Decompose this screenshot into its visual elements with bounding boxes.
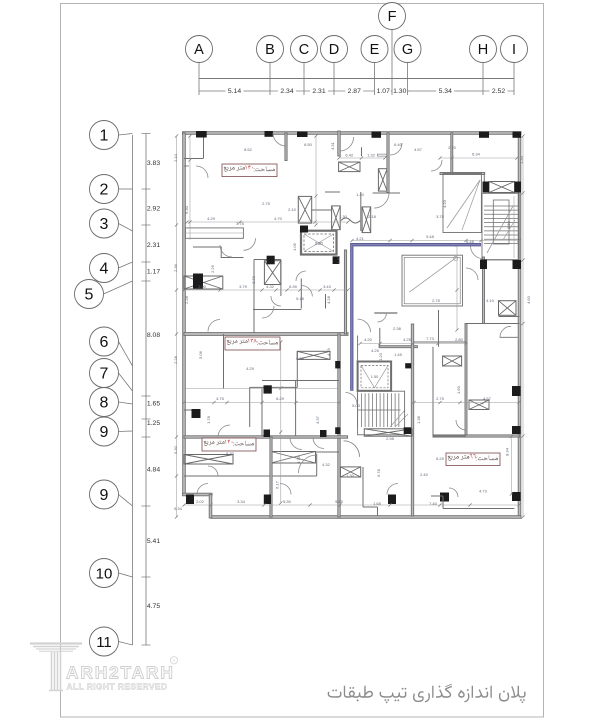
door arc 10 xyxy=(208,466,218,476)
grid leader A xyxy=(198,63,200,96)
stair dim v xyxy=(513,196,515,258)
wall room B-C v xyxy=(285,133,287,161)
door arc wc 66 xyxy=(500,326,511,337)
column bottom A xyxy=(186,495,194,505)
wall y380 h xyxy=(262,380,339,382)
outer wall top xyxy=(183,132,522,135)
svg-text:6.34: 6.34 xyxy=(472,152,481,157)
svg-text:2.75: 2.75 xyxy=(432,298,441,303)
elevator U2 cab xyxy=(361,365,388,387)
svg-text:F: F xyxy=(388,9,397,25)
svg-text:5.06: 5.06 xyxy=(198,350,203,359)
svg-text:7.73: 7.73 xyxy=(426,336,435,341)
closet hatch below stair xyxy=(341,467,361,477)
svg-text:2.28: 2.28 xyxy=(173,355,178,364)
svg-text:1.78: 1.78 xyxy=(206,415,211,424)
wall x281 v xyxy=(280,260,282,297)
svg-text:ARH2TARH: ARH2TARH xyxy=(66,663,174,683)
right outside dim rail xyxy=(522,136,524,517)
door arc lobby xyxy=(301,286,312,297)
svg-text:4.32: 4.32 xyxy=(322,462,331,467)
column interior C4 xyxy=(267,256,275,265)
column stair beam L xyxy=(483,182,490,193)
svg-text:ALL RIGHT RESERVED: ALL RIGHT RESERVED xyxy=(67,682,168,692)
svg-text:1.32: 1.32 xyxy=(367,153,376,158)
door arc 19 xyxy=(449,488,458,497)
svg-text:6.40: 6.40 xyxy=(394,142,403,147)
svg-text:2.87: 2.87 xyxy=(348,88,361,95)
door arc x281 xyxy=(271,296,281,306)
svg-text:2.90: 2.90 xyxy=(198,284,207,289)
grid leader 5 xyxy=(104,281,133,294)
grid leader 9 xyxy=(119,430,133,433)
grid leader 6 xyxy=(119,342,133,367)
svg-text:6.50: 6.50 xyxy=(304,142,313,147)
svg-text:4.37: 4.37 xyxy=(315,415,320,424)
svg-text:2.70: 2.70 xyxy=(448,145,457,150)
shaft hatch EF v xyxy=(378,169,387,191)
svg-text:3.43: 3.43 xyxy=(323,284,332,289)
svg-text:1.45: 1.45 xyxy=(394,352,403,357)
svg-text:6.30: 6.30 xyxy=(184,205,189,214)
dim line y343 xyxy=(360,343,466,345)
beam hatch EF xyxy=(339,162,360,172)
logo registered mark xyxy=(170,657,177,664)
grid bubble 3 (row) xyxy=(90,209,119,238)
svg-text:3.34: 3.34 xyxy=(237,499,246,504)
room 4.20 diagonal xyxy=(447,180,480,228)
svg-text:H: H xyxy=(478,42,488,58)
wall x363 v xyxy=(362,467,364,507)
column top I xyxy=(513,132,522,138)
dim line x280 v xyxy=(280,342,282,503)
door arc double leaf a xyxy=(344,441,360,457)
svg-text:5.18: 5.18 xyxy=(296,296,305,301)
svg-text:2.50: 2.50 xyxy=(506,220,511,229)
svg-text:6: 6 xyxy=(100,334,109,351)
beam hatch stair2 xyxy=(364,429,412,436)
svg-text:2.52: 2.52 xyxy=(492,88,505,95)
wall x433 v xyxy=(432,347,434,436)
stair mid rail xyxy=(358,409,401,411)
grid bubble 7 (row) xyxy=(90,359,119,388)
column left wall mid xyxy=(193,274,203,289)
svg-text:7.40: 7.40 xyxy=(429,501,438,506)
door arc 9 xyxy=(299,455,317,473)
plan dimension labels xyxy=(173,141,531,511)
svg-text:2.31: 2.31 xyxy=(312,88,325,95)
wall x484 stub xyxy=(483,174,485,184)
grid leader D xyxy=(333,63,335,96)
wall corridor west xyxy=(338,334,340,517)
svg-text:D: D xyxy=(329,42,339,58)
svg-text:1.07: 1.07 xyxy=(377,88,390,95)
svg-text:1.50: 1.50 xyxy=(371,375,378,379)
grid bubble 5 (row) xyxy=(75,280,104,309)
svg-text:1.30: 1.30 xyxy=(346,473,355,478)
svg-text:5.85: 5.85 xyxy=(335,499,344,504)
window bay left xyxy=(185,228,243,238)
svg-text:4.75: 4.75 xyxy=(216,396,225,401)
elevator U2 V xyxy=(361,365,375,387)
svg-text:3: 3 xyxy=(100,216,109,233)
grid bubble 6 (row) xyxy=(90,327,119,356)
grid leader H xyxy=(482,63,484,96)
elevator U1 cab xyxy=(304,234,334,252)
column corridor right xyxy=(480,260,487,270)
wall corridor east xyxy=(411,324,413,516)
svg-text:1.05: 1.05 xyxy=(292,242,297,251)
wall wc 66 h xyxy=(499,316,520,318)
wall y173 h xyxy=(440,173,485,175)
svg-text:4.20: 4.20 xyxy=(442,199,447,208)
wall x360 v xyxy=(360,192,362,231)
grid bubble 8 (row) xyxy=(90,388,119,417)
column stair2 NW xyxy=(335,361,340,368)
top dimension rail xyxy=(199,78,514,80)
column interior corridor xyxy=(264,385,272,393)
room 4.20 diagonal 2 xyxy=(462,180,480,230)
outer wall step bottom-left h xyxy=(183,493,213,496)
dim line x457 v xyxy=(456,245,458,330)
column interior 8 xyxy=(264,430,271,438)
stairwell box xyxy=(482,193,519,259)
svg-text:6.17: 6.17 xyxy=(275,480,280,489)
grid bubble F xyxy=(379,3,406,30)
area label 138 (mid) xyxy=(225,337,280,350)
svg-text:3.73: 3.73 xyxy=(296,455,301,464)
column right wall mid xyxy=(513,260,522,269)
door arc 13 xyxy=(431,160,442,171)
svg-text:4.20: 4.20 xyxy=(364,337,373,342)
svg-text:5.03: 5.03 xyxy=(352,403,361,408)
svg-text:2.98: 2.98 xyxy=(386,436,395,441)
grid leader I xyxy=(513,63,515,96)
svg-text:5.39: 5.39 xyxy=(296,356,305,361)
door arc y313 xyxy=(377,313,386,322)
svg-text:5.41: 5.41 xyxy=(147,538,160,545)
svg-text:2.10: 2.10 xyxy=(173,153,178,162)
svg-text:4.28: 4.28 xyxy=(326,295,331,304)
grid leader 8 xyxy=(119,402,133,404)
column interior 8b xyxy=(320,430,327,437)
area label 66 (right) xyxy=(446,453,500,466)
svg-text:1.25: 1.25 xyxy=(147,420,160,427)
shaft hatch 1 xyxy=(298,196,311,223)
wall y436 right xyxy=(433,435,520,437)
door arc 2 xyxy=(220,245,232,257)
wall x438 upper v xyxy=(438,310,440,347)
svg-text:5.30: 5.30 xyxy=(173,445,178,454)
wall Z-partition xyxy=(193,247,244,258)
grid leader 7 xyxy=(119,373,133,391)
door arc 17 xyxy=(280,484,291,495)
wall elevator lobby v xyxy=(300,279,302,309)
elevator U1 cross xyxy=(304,234,334,252)
wall y387 h xyxy=(250,386,298,388)
dim line y402 xyxy=(184,402,339,404)
svg-text:4.19: 4.19 xyxy=(326,347,331,356)
grid bubble H xyxy=(470,36,497,63)
svg-text:4.60: 4.60 xyxy=(526,295,531,304)
grid bubble I xyxy=(501,36,528,63)
left dim tick xyxy=(142,395,151,397)
column top C xyxy=(297,132,308,138)
grid leader 11 xyxy=(119,642,133,646)
door arc double leaf b xyxy=(352,443,360,457)
svg-text:4.10: 4.10 xyxy=(486,298,495,303)
void room 2 box xyxy=(402,255,463,306)
svg-text:4.29: 4.29 xyxy=(207,216,216,221)
svg-text:2.34: 2.34 xyxy=(280,88,293,95)
wall closet top-left h xyxy=(184,158,204,160)
grid bubble 2 (row) xyxy=(90,175,119,204)
svg-text:4.75: 4.75 xyxy=(147,603,160,610)
svg-text:5: 5 xyxy=(85,287,94,304)
wall corridor x483 xyxy=(483,257,485,324)
left grid rail xyxy=(132,135,134,645)
shaft hatch 3 xyxy=(362,207,371,233)
grid leader 1 xyxy=(119,134,133,136)
wall x262b v xyxy=(261,389,263,438)
door arc 6 xyxy=(218,425,230,437)
svg-text:6.42: 6.42 xyxy=(345,153,354,158)
dim line 6.75 xyxy=(184,388,339,390)
left dim tick xyxy=(142,505,151,507)
stair2 box xyxy=(358,391,405,435)
svg-text:3.79: 3.79 xyxy=(239,284,248,289)
grid leader G xyxy=(407,63,409,96)
wall D double v xyxy=(338,131,340,156)
column bottom F xyxy=(388,495,396,505)
wall y452 h xyxy=(316,451,340,453)
grid leader 10 xyxy=(119,573,133,577)
shaft hatch 2 xyxy=(332,206,341,230)
wall x380 v xyxy=(379,328,381,348)
wall y346 h xyxy=(379,346,417,348)
outer wall bottom xyxy=(211,516,521,519)
door arc D xyxy=(340,137,354,151)
svg-text:10: 10 xyxy=(96,566,113,583)
stair treads bottom xyxy=(358,393,399,427)
grid leader 2 xyxy=(119,188,133,190)
svg-text:8.08: 8.08 xyxy=(147,332,160,339)
left dim tick xyxy=(142,280,151,282)
svg-text:2: 2 xyxy=(100,182,109,199)
left dim tick xyxy=(142,644,151,646)
wall y193 h xyxy=(373,192,400,194)
svg-text:1.30: 1.30 xyxy=(339,214,348,219)
svg-text:5.34: 5.34 xyxy=(439,88,452,95)
outer wall left xyxy=(183,133,186,495)
dim line y222 xyxy=(187,221,348,223)
svg-text:4.21: 4.21 xyxy=(356,236,365,241)
svg-text:1.17: 1.17 xyxy=(147,269,160,276)
svg-text:1.30: 1.30 xyxy=(393,88,406,95)
area label 140 (top) xyxy=(222,164,277,177)
window bar EF xyxy=(378,154,390,156)
area label 140 (bottom) xyxy=(202,438,256,451)
grid bubble 1 (row) xyxy=(90,121,119,150)
svg-text:1.38: 1.38 xyxy=(416,415,421,424)
grid bubble A xyxy=(186,36,213,63)
svg-text:1.30: 1.30 xyxy=(519,155,524,164)
grid leader 3 xyxy=(119,224,133,232)
door arc 3 xyxy=(262,306,274,318)
svg-text:2.10: 2.10 xyxy=(288,207,297,212)
closet hatch bl 1 xyxy=(184,455,233,465)
svg-text:2.28: 2.28 xyxy=(184,295,189,304)
wall U2 link xyxy=(357,336,359,362)
column interior center xyxy=(300,226,308,233)
grid leader E xyxy=(374,63,376,96)
stair arrow right xyxy=(487,206,513,253)
left dim tick xyxy=(142,261,151,263)
hatch beam y355 xyxy=(297,351,330,359)
dim line x190 v xyxy=(189,136,191,240)
svg-text:5.14: 5.14 xyxy=(228,88,241,95)
svg-text:9.48: 9.48 xyxy=(426,234,435,239)
door arc 1 xyxy=(196,166,208,178)
outer wall right xyxy=(518,133,521,518)
door arc 4 xyxy=(296,271,306,281)
wall y259 stub xyxy=(254,259,281,261)
door arc 8 xyxy=(313,438,324,449)
svg-text:9: 9 xyxy=(100,487,109,504)
svg-text:4.73: 4.73 xyxy=(479,489,488,494)
svg-text:2.38: 2.38 xyxy=(393,326,402,331)
svg-text:4.29: 4.29 xyxy=(246,366,255,371)
svg-text:8.34: 8.34 xyxy=(505,447,510,456)
wall x250 v xyxy=(249,387,251,427)
closet hatch 66 apt 2 xyxy=(469,400,489,410)
wall y437 h xyxy=(184,436,348,438)
left dim tick xyxy=(142,418,151,420)
svg-text:2.80: 2.80 xyxy=(455,337,464,342)
wall y324 right xyxy=(466,323,520,325)
major wall y334 xyxy=(184,333,348,336)
svg-text:6.39: 6.39 xyxy=(289,284,298,289)
column right wall 7 xyxy=(512,386,521,396)
stair exit arc xyxy=(471,246,484,259)
door arc 7 xyxy=(290,438,302,450)
svg-text:4: 4 xyxy=(100,261,109,278)
svg-text:3.75: 3.75 xyxy=(236,221,245,226)
svg-text:1.40: 1.40 xyxy=(356,192,365,197)
svg-text:4.25: 4.25 xyxy=(371,348,380,353)
left dim tick xyxy=(142,224,151,226)
column bottom G xyxy=(440,493,449,502)
svg-text:5.30: 5.30 xyxy=(283,499,292,504)
svg-text:6.78: 6.78 xyxy=(376,468,381,477)
left dim tick xyxy=(142,576,151,578)
wall left jog tick xyxy=(184,165,189,167)
dim line y289 xyxy=(184,289,348,291)
svg-text:4.25: 4.25 xyxy=(403,337,412,342)
door arc 18 xyxy=(387,484,398,495)
grid bubble G xyxy=(394,36,421,63)
door arc 12 xyxy=(208,320,220,332)
svg-text:2.36: 2.36 xyxy=(173,263,178,272)
stair arrow right 2 xyxy=(503,220,515,240)
svg-text:4.31: 4.31 xyxy=(330,141,335,150)
wall y410 stub xyxy=(184,409,192,411)
wall x295 v xyxy=(295,380,297,437)
door arc corridor 66 xyxy=(358,319,371,332)
svg-text:C: C xyxy=(299,42,309,58)
wall y313 h xyxy=(374,312,397,314)
grid bubble 10 (row) xyxy=(90,559,119,588)
outer wall step bottom-left v xyxy=(209,495,212,519)
grid bubble C xyxy=(291,36,318,63)
svg-text:2.75: 2.75 xyxy=(436,396,445,401)
wall closet top-left v xyxy=(203,134,205,158)
grid leader 4 xyxy=(119,262,133,268)
grid leader 9 xyxy=(119,495,133,507)
grid bubble 9 (row) xyxy=(90,480,119,509)
svg-text:4.32: 4.32 xyxy=(266,284,275,289)
dim line y505 xyxy=(184,504,519,506)
svg-text:3.73: 3.73 xyxy=(251,275,256,284)
svg-text:1.68: 1.68 xyxy=(373,501,382,506)
wall x377 v xyxy=(377,507,379,516)
wall y476 h xyxy=(184,475,317,477)
svg-text:E: E xyxy=(370,42,380,58)
void room 2 diagonal xyxy=(409,258,455,292)
column bottom B xyxy=(264,495,271,505)
elevator U1 outer xyxy=(301,231,337,255)
svg-text:5.34: 5.34 xyxy=(174,506,183,511)
svg-text:1.60: 1.60 xyxy=(456,385,461,394)
wall x325 stub xyxy=(325,294,327,309)
svg-text:1.20: 1.20 xyxy=(378,352,383,361)
wall y260 stair bottom xyxy=(482,259,520,261)
svg-text:2.92: 2.92 xyxy=(147,206,160,213)
column top B xyxy=(265,131,273,137)
grid bubble D xyxy=(321,36,348,63)
wall x361 stub xyxy=(361,147,363,156)
wall y436 x433-466 xyxy=(433,435,466,437)
grid leader B xyxy=(269,63,271,96)
grid leader F xyxy=(391,30,393,96)
door arc window bay xyxy=(244,238,256,250)
column top H xyxy=(479,132,489,138)
door arc stair2 xyxy=(346,393,358,405)
door arc 15 xyxy=(390,143,402,155)
wall wc 66 h2 xyxy=(500,336,519,338)
left dim tick xyxy=(142,133,151,135)
door arc 14 xyxy=(273,133,286,146)
wall y508 step xyxy=(443,508,514,510)
svg-text:3.83: 3.83 xyxy=(147,160,160,167)
column left wall 7 xyxy=(192,409,201,418)
stair treads right xyxy=(484,206,519,243)
svg-text:1: 1 xyxy=(100,128,109,145)
column stair2 SW xyxy=(335,427,340,434)
svg-text:2.18: 2.18 xyxy=(368,214,377,219)
grid bubble 4 (row) xyxy=(90,254,119,283)
svg-text:A: A xyxy=(194,42,204,58)
wall corridor left of blue xyxy=(344,250,346,334)
grid bubble 11 (row) xyxy=(90,627,119,656)
grid leader C xyxy=(303,63,305,96)
dim line y158 right xyxy=(440,157,517,159)
blue corridor polyline xyxy=(352,245,481,391)
svg-text:2.40: 2.40 xyxy=(420,472,429,477)
wall x254 v xyxy=(253,260,255,335)
svg-text:I: I xyxy=(512,42,516,58)
wall y507 h xyxy=(363,506,378,508)
